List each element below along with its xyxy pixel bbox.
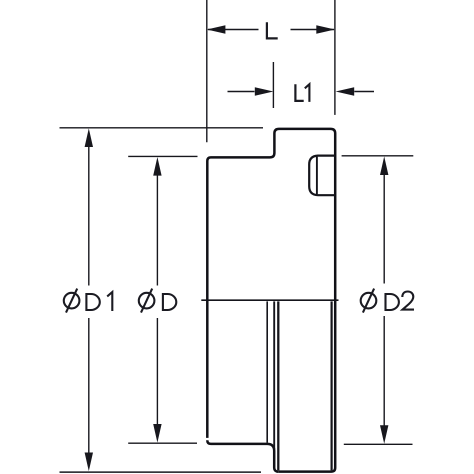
dim L: left arrowhead (207, 25, 226, 33)
dim L: dimension line right segment (291, 29, 335, 31)
dim D2: top extension line (342, 155, 414, 157)
dim D1: bottom extension line (60, 471, 262, 473)
dim D1: diameter symbol (64, 289, 80, 313)
lower section line B (x 274) (273, 301, 275, 449)
bead tab outline (top right) (309, 156, 335, 196)
dim L1: left arrowhead (pointing right) (255, 87, 274, 95)
dim D1: label "D1" (86, 294, 99, 310)
dim D: dimension line upper segment (156, 175, 158, 286)
dim D2: top arrowhead (up) (380, 156, 388, 175)
dim D2: label "D2" (386, 294, 399, 310)
dim D1: top arrowhead (up) (85, 128, 93, 147)
dim D1: bottom arrowhead (down) (85, 453, 93, 472)
dim D2: bottom extension line (344, 443, 413, 445)
dim D2: bottom arrowhead (down) (380, 425, 388, 444)
lower section line A (x 267) (266, 301, 268, 442)
dim D2: diameter symbol (361, 289, 377, 313)
dim D: bottom arrowhead (down) (153, 424, 161, 443)
dim L: dimension line left segment (208, 29, 259, 31)
dim D: diameter symbol (139, 289, 155, 313)
dim L1: left extension line (272, 62, 274, 108)
dim D1: top extension line (60, 127, 264, 129)
part outline: lower-left bottom edge and step fillet (207, 440, 278, 471)
dim D2: dimension line upper segment (383, 175, 385, 284)
dim L: left extension line (206, 0, 208, 142)
dim D: bottom extension line (128, 442, 197, 444)
dim D1: dimension line lower segment (88, 318, 90, 454)
dim L1: left leader line (228, 91, 255, 93)
dim L1: right arrowhead (pointing left) (336, 87, 355, 95)
dim L: right extension line (shared with L1) (334, 0, 336, 115)
dim L1: label "L1" (295, 84, 303, 101)
dim D: label "D" (163, 294, 176, 310)
dim D: dimension line lower segment (156, 318, 158, 425)
dim L: label "L" (267, 22, 278, 38)
dim D: top extension line (128, 155, 197, 157)
dim D1: dimension line upper segment (88, 146, 90, 286)
lower section line C (x 278) (277, 301, 279, 470)
lower section line D (x 331.6) (331, 301, 333, 470)
dim L1: right leader line (354, 91, 374, 93)
part outline: liner body silhouette (207, 129, 335, 472)
dim D: top arrowhead (up) (153, 157, 161, 176)
dim L: right arrowhead (316, 25, 335, 33)
bead tab tangent line (316, 157, 318, 195)
centerline (201, 299, 338, 301)
dim D2: dimension line lower segment (383, 316, 385, 426)
